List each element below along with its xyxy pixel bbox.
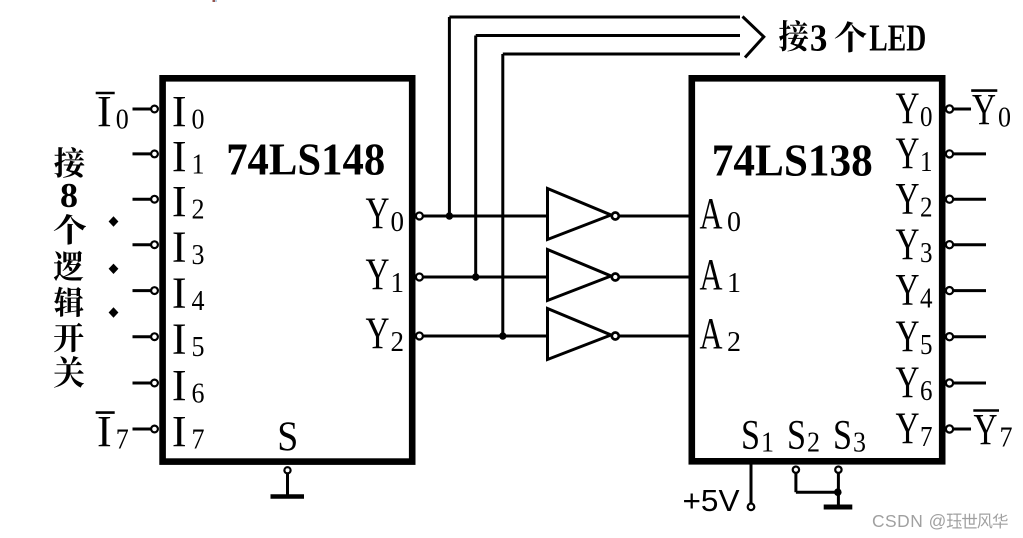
svg-text:1: 1 (920, 146, 933, 178)
svg-text:I: I (172, 361, 187, 410)
svg-text:Y: Y (974, 405, 998, 454)
svg-text:+5V: +5V (683, 484, 741, 518)
svg-text:Y: Y (366, 189, 390, 239)
svg-text:6: 6 (192, 378, 205, 410)
svg-text:4: 4 (192, 285, 205, 317)
svg-text:I: I (97, 407, 112, 456)
svg-text:5: 5 (920, 329, 933, 361)
svg-text:LED: LED (869, 18, 926, 60)
svg-text:A: A (700, 250, 723, 299)
svg-text:1: 1 (192, 148, 205, 180)
svg-text:S: S (833, 413, 852, 459)
svg-text:1: 1 (727, 267, 741, 299)
svg-text:5: 5 (192, 331, 205, 363)
svg-text:Y: Y (896, 358, 920, 408)
svg-text:Y: Y (896, 265, 920, 315)
svg-text:Y: Y (972, 85, 996, 134)
svg-text:0: 0 (727, 206, 741, 238)
svg-text:7: 7 (192, 424, 205, 456)
svg-text:Y: Y (896, 84, 920, 134)
svg-text:3: 3 (920, 237, 933, 269)
svg-text:S: S (787, 413, 806, 459)
svg-text:A: A (700, 309, 723, 358)
svg-text:I: I (172, 223, 187, 272)
svg-text:2: 2 (192, 194, 205, 226)
svg-text:2: 2 (391, 326, 405, 358)
svg-text:3: 3 (853, 427, 866, 459)
svg-text:Y: Y (366, 250, 390, 300)
svg-text:Y: Y (896, 219, 920, 269)
svg-text:4: 4 (920, 283, 933, 315)
svg-text:Y: Y (896, 404, 920, 454)
svg-text:I: I (172, 315, 187, 364)
svg-text:I: I (172, 177, 187, 226)
svg-text:I: I (172, 132, 187, 181)
svg-text:I: I (97, 87, 112, 136)
svg-text:0: 0 (998, 102, 1011, 134)
svg-text:S: S (277, 415, 298, 461)
svg-text:7: 7 (920, 421, 933, 453)
svg-text:0: 0 (391, 206, 405, 238)
svg-text:7: 7 (1000, 421, 1013, 453)
svg-text:74LS148: 74LS148 (226, 134, 385, 185)
svg-text:3: 3 (810, 18, 828, 60)
svg-text:1: 1 (391, 267, 405, 299)
svg-text:CSDN @: CSDN @ (872, 511, 947, 531)
svg-text:A: A (700, 189, 723, 238)
svg-text:Y: Y (366, 309, 390, 359)
svg-text:I: I (172, 407, 187, 456)
svg-text:S: S (741, 413, 760, 459)
svg-text:I: I (172, 269, 187, 318)
svg-text:3: 3 (192, 239, 205, 271)
svg-text:2: 2 (920, 191, 933, 223)
svg-text:2: 2 (807, 427, 820, 459)
svg-text:0: 0 (920, 101, 933, 133)
svg-text:0: 0 (192, 104, 205, 136)
svg-text:6: 6 (920, 375, 933, 407)
svg-text:I: I (172, 87, 187, 136)
svg-text:Y: Y (896, 174, 920, 224)
svg-text:8: 8 (60, 177, 78, 215)
svg-text:Y: Y (896, 129, 920, 179)
svg-text:Y: Y (896, 311, 920, 361)
svg-text:2: 2 (727, 326, 741, 358)
svg-text:1: 1 (761, 427, 774, 459)
svg-text:0: 0 (116, 104, 129, 136)
svg-text:74LS138: 74LS138 (712, 135, 873, 186)
svg-text:7: 7 (116, 424, 129, 456)
